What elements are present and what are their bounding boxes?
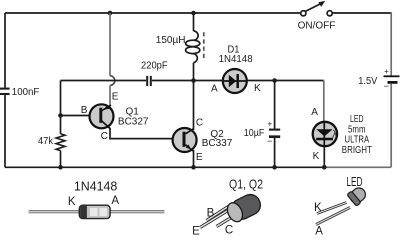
svg-text:A: A (211, 84, 218, 95)
svg-text:220pF: 220pF (141, 61, 168, 72)
svg-text:E: E (112, 92, 119, 103)
wire inductor bottom (193, 63, 195, 81)
svg-text:100nF: 100nF (12, 87, 40, 98)
transistor Q2 BC337 (173, 128, 197, 152)
junction dot bottom rail x60.5 (58, 165, 63, 170)
wire 47k bottom (60, 151, 62, 168)
svg-text:1N4148: 1N4148 (219, 54, 253, 65)
svg-text:E: E (192, 226, 200, 237)
wire D1 anode (194, 80, 224, 82)
resistor R 47k (56, 134, 65, 151)
svg-text:−: − (267, 136, 272, 146)
switch S1 ON/OFF (301, 1, 333, 16)
capacitor C 220pF (147, 76, 151, 86)
svg-text:B: B (81, 105, 88, 116)
wire Q1 emitter vertical lower (grey) (109, 85, 111, 106)
LED 5mm ultra bright (313, 122, 338, 146)
battery BT1 1.5V (384, 76, 400, 82)
svg-text:BRIGHT: BRIGHT (342, 145, 372, 156)
svg-text:A: A (111, 195, 119, 207)
wire bottom rail (5, 166, 324, 168)
transistor Q1 BC327 (90, 104, 114, 128)
junction dot top rail x110 (108, 11, 113, 16)
junction dot Q1 base node (58, 113, 63, 118)
pictorial 1N4148 body (79, 205, 110, 218)
wire switch to right rail (333, 12, 391, 14)
wire LED branch corner (grey) (323, 81, 325, 122)
svg-text:LED: LED (346, 175, 362, 189)
svg-text:1.5V: 1.5V (358, 76, 377, 87)
junction dot bottom rail x324.3 (322, 165, 327, 170)
wire 220pF line left (61, 80, 147, 82)
svg-text:B: B (207, 208, 215, 220)
svg-text:C: C (225, 225, 233, 237)
wire top rail (5, 12, 300, 14)
junction dot node 220pF/L1/D1/Q2 (191, 78, 196, 83)
svg-text:150µH: 150µH (156, 35, 186, 46)
label LED 5mm ULTRA BRIGHT (342, 114, 372, 156)
svg-text:+: + (267, 120, 272, 129)
inductor L1 150uH coil (186, 31, 200, 63)
junction dot node 10uF (272, 78, 277, 83)
svg-text:C: C (101, 131, 108, 142)
pictorial Q1 Q2 TO-92 package (200, 191, 264, 227)
svg-text:ULTRA: ULTRA (345, 135, 370, 146)
svg-text:−: − (384, 81, 389, 91)
svg-text:ON/OFF: ON/OFF (298, 20, 336, 31)
junction dot bottom rail x274.6 (272, 165, 277, 170)
svg-text:BC337: BC337 (202, 138, 233, 149)
svg-text:47k: 47k (38, 136, 54, 147)
wire LED bottom (323, 146, 325, 168)
capacitor C 10uF electrolytic (269, 130, 280, 137)
wire Q2 collector up (193, 81, 195, 131)
wire right rail lower (grey) (390, 84, 392, 168)
wire Q1 base (61, 115, 90, 117)
junction dot top rail x193.5 (191, 11, 196, 16)
wire left rail upper (4, 13, 6, 88)
svg-text:Q1, Q2: Q1, Q2 (229, 178, 263, 192)
wire hop over 220pF line (110, 76, 115, 86)
inductor core dashed line (203, 32, 205, 61)
svg-text:1N4148: 1N4148 (74, 180, 118, 194)
svg-text:10µF: 10µF (244, 128, 265, 139)
capacitor C 100nF (0, 89, 10, 94)
wire 10uF top (274, 81, 276, 129)
wire bottom rail right (grey) (324, 166, 391, 168)
wire left rail lower (4, 95, 6, 167)
wire 220pF line right (152, 80, 194, 82)
svg-text:A: A (315, 226, 323, 237)
svg-text:K: K (313, 151, 320, 162)
diode D1 1N4148 (223, 69, 247, 93)
wire 10uF bottom (274, 138, 276, 167)
svg-text:BC327: BC327 (118, 116, 149, 127)
wire D1 cathode (247, 80, 324, 82)
svg-text:K: K (68, 196, 76, 208)
svg-text:E: E (196, 152, 203, 163)
svg-text:K: K (314, 202, 322, 214)
pictorial 1N4148 lead wire (29, 210, 165, 213)
wire Q1 emitter vertical upper (grey) (109, 13, 111, 76)
svg-text:A: A (311, 107, 318, 118)
svg-text:λ: λ (332, 130, 337, 141)
wire right rail upper (grey) (390, 12, 392, 76)
wire left drop x60.5 (60, 81, 62, 134)
svg-text:K: K (254, 83, 261, 94)
junction dot bottom rail x193.5 (191, 165, 196, 170)
wire inductor top (193, 13, 195, 31)
wire Q2 emitter down (193, 150, 195, 167)
svg-text:C: C (196, 118, 203, 129)
pictorial LED component (316, 185, 369, 225)
svg-text:+: + (384, 67, 389, 76)
wire Q1 collector to Q2 base (110, 128, 173, 139)
